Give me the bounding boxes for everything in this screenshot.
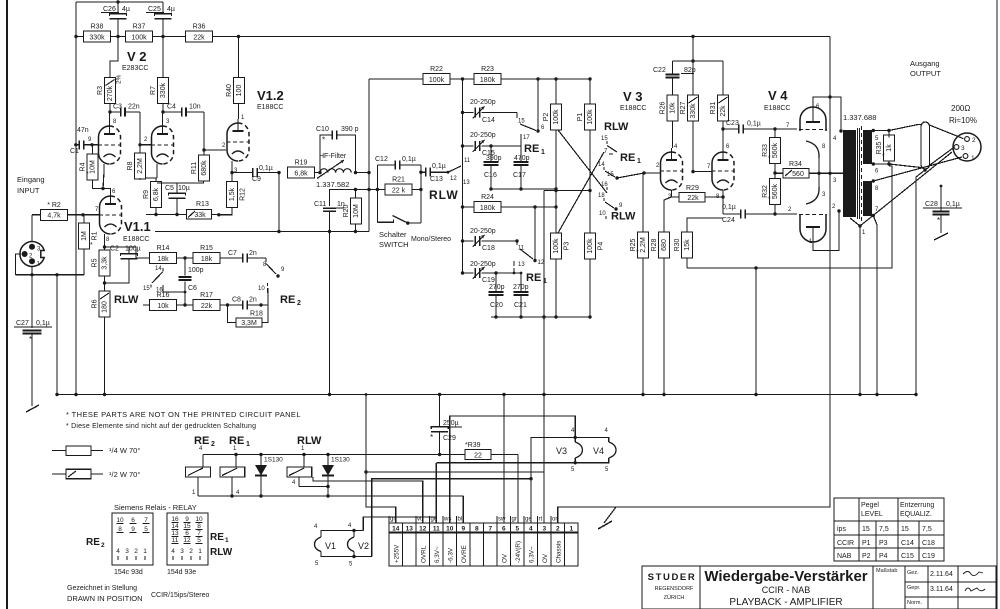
svg-text:13: 13 [518,262,525,268]
wire R7 top [162,37,164,78]
wire R3 to anode node [109,104,111,113]
resistor R2 [32,202,83,221]
switch contact 11-12-13 [446,158,471,186]
title block dates [907,570,985,606]
resistor R27 [680,95,699,121]
wire R4 bottom to V1.1 anode [93,180,111,192]
svg-text:V1.2: V1.2 [257,88,284,103]
node switch module left [376,188,379,191]
svg-text:+255V: +255V [393,544,400,563]
node R5 bottom [103,281,106,284]
svg-text:1.337.688: 1.337.688 [843,113,876,122]
svg-text:V 3: V 3 [623,89,643,104]
wire V3b anode [722,121,724,148]
svg-text:1S130: 1S130 [331,457,350,464]
wire cell9 relay [462,496,464,523]
node row317 C20 [494,315,497,318]
svg-text:0,1µ: 0,1µ [402,156,416,163]
tube V2b [151,119,174,164]
svg-text:C21: C21 [514,302,527,309]
node bus x756 [754,393,757,396]
resistor R24 [463,194,557,213]
resistor R23 [474,66,556,85]
capacitor C27 [14,320,52,406]
svg-text:R40: R40 [226,84,233,97]
svg-text:V2: V2 [358,541,369,551]
svg-text:11: 11 [433,526,440,533]
node R39 left [438,453,441,456]
node C23 tap [721,127,724,130]
svg-text:-6,3V: -6,3V [447,547,454,563]
svg-text:gn: gn [390,517,397,523]
text RE1 table [210,532,229,544]
text Siemens Relais [114,503,197,512]
wire V2b cathode to R9 row [156,164,158,178]
resistor R32 [762,173,781,214]
svg-text:14: 14 [155,266,162,272]
wire R30 feedback [687,166,892,268]
svg-text:1S130: 1S130 [264,457,283,464]
node tr terminal 6 [872,162,879,174]
tube V2a [98,119,121,164]
wire tr8 to pin1 [873,157,962,181]
svg-text:16: 16 [171,516,179,523]
wire R9 C5 row [146,214,172,216]
diode D2 1S130 [322,455,350,497]
svg-text:Entzerrung: Entzerrung [900,502,934,509]
wire feedback vertical [75,2,77,394]
svg-text:15: 15 [607,172,614,178]
node row215 C5 [175,213,178,216]
svg-text:4: 4 [116,548,120,555]
node R33 bottom [773,171,776,174]
svg-text:10: 10 [195,516,203,523]
text note german [66,423,256,430]
wire EQ ground row [491,316,590,318]
svg-text:Ausgang: Ausgang [910,59,940,68]
svg-text:-24V(R): -24V(R) [515,541,522,563]
svg-text:20-250p: 20-250p [470,99,496,106]
text RLW relay [297,435,322,447]
svg-text:18k: 18k [157,256,169,263]
svg-text:10M: 10M [90,160,97,174]
svg-text:100p: 100p [188,267,204,274]
resistor R3 [97,74,123,103]
capacitor C16 [484,146,502,189]
svg-text:C24: C24 [722,217,735,224]
svg-text:330k: 330k [89,34,105,41]
resistor R1 [79,215,99,249]
svg-text:*: * [768,196,771,203]
node row215 R9 [154,213,157,216]
resistor R18 [228,305,269,327]
inductor HF-Filter [317,153,351,179]
svg-text:12: 12 [538,260,545,266]
svg-text:4: 4 [171,548,175,555]
svg-text:12: 12 [183,537,191,544]
svg-text:250µ: 250µ [443,420,459,427]
svg-text:RLW: RLW [114,294,139,306]
node relay D2 [326,494,329,497]
text Massstab [876,568,897,574]
svg-text:Norm.: Norm. [907,600,922,606]
relay pin table 154c [112,513,153,576]
svg-text:R21: R21 [392,177,405,184]
svg-text:R26: R26 [660,101,667,114]
node R22-R23 [450,77,474,80]
svg-text:13: 13 [406,526,414,533]
node tr terminal 3 [830,173,843,184]
wire x544 to bus [543,191,545,524]
svg-text:82p: 82p [684,67,696,74]
svg-text:2n: 2n [249,250,257,257]
node cathode C2 tap [103,245,106,248]
svg-text:2%: 2% [116,74,123,84]
resistor R17 [177,292,221,311]
svg-text:18k: 18k [201,256,213,263]
svg-text:2: 2 [556,526,560,533]
node bus x877 [875,393,878,396]
svg-text:3,3M: 3,3M [241,320,257,327]
svg-text:PLAYBACK - AMPLIFIER: PLAYBACK - AMPLIFIER [729,597,842,608]
svg-text:10: 10 [446,526,454,533]
wire V2 heater link [363,517,436,531]
svg-text:2.11.64: 2.11.64 [930,571,953,578]
svg-text:1k: 1k [886,144,893,152]
svg-text:R7: R7 [150,86,157,95]
capacitor C1 [70,127,92,155]
node C24 R32 [773,207,797,216]
tube V3 label [620,89,646,112]
svg-text:C1: C1 [70,148,79,155]
wire XLR pin1 down [31,266,33,275]
svg-text:P3: P3 [564,242,571,251]
svg-text:E188CC: E188CC [257,104,283,111]
svg-text:vt: vt [417,517,422,523]
wire R29 cathode row [671,190,673,197]
svg-text:10k: 10k [157,303,169,310]
svg-text:RLW: RLW [210,547,233,558]
svg-text:RE: RE [210,532,224,543]
text RE1 lower [526,272,547,285]
svg-text:C26: C26 [103,6,116,13]
svg-text:11: 11 [464,158,471,164]
node bus x57 [55,393,58,396]
svg-text:22 k: 22 k [392,187,406,194]
svg-text:V1.1: V1.1 [124,219,151,234]
svg-text:REGENSDORF: REGENSDORF [655,586,694,592]
tube V1.2 label [257,88,284,111]
switch RLW b [601,136,617,155]
svg-text:ZÜRICH: ZÜRICH [664,594,685,601]
node row231 R20 [354,230,357,233]
resistor R19 [288,160,321,179]
switch contact 14-15-16 [143,266,185,294]
svg-text:0,1µ: 0,1µ [36,320,50,327]
svg-text:1,5k: 1,5k [229,187,236,201]
svg-text:R36: R36 [193,24,206,31]
resistor R5 [92,250,111,276]
svg-text:C23: C23 [726,120,739,127]
node C22 top [691,59,694,62]
svg-text:V 4: V 4 [768,88,788,103]
svg-text:Ri≈10%: Ri≈10% [949,116,977,125]
svg-text:20-250p: 20-250p [470,132,496,139]
svg-text:180: 180 [102,301,109,313]
node V1.2 cathode [230,171,233,174]
svg-text:P2: P2 [543,113,550,122]
capacitor C23 [723,120,775,134]
svg-text:E188CC: E188CC [123,236,149,243]
text RE2 relay [194,435,215,448]
svg-text:R22: R22 [430,66,443,73]
svg-text:7: 7 [144,517,148,524]
svg-text:1: 1 [246,441,250,448]
svg-text:20-250p: 20-250p [470,228,496,235]
svg-text:P4: P4 [879,553,888,560]
svg-text:R27: R27 [680,101,687,114]
ground input [26,405,39,412]
svg-text:LEVEL: LEVEL [861,511,883,518]
svg-text:14: 14 [171,523,179,530]
svg-text:R16: R16 [157,292,170,299]
capacitor C25 [146,2,175,37]
svg-text:*: * [937,216,940,225]
node tr terminal 4 [833,129,843,142]
wire V4 pin6 to tr4 [813,97,841,130]
tube V2 label [122,49,148,72]
node R17 right [220,303,232,306]
switch RE1 c [514,205,545,273]
svg-text:* THESE PARTS ARE NOT ON: * THESE PARTS ARE NOT ON THE PRINTED CIR… [66,410,301,419]
svg-text:R3: R3 [97,86,104,95]
svg-text:RLW: RLW [429,188,459,202]
svg-text:sw: sw [498,517,506,523]
svg-text:13: 13 [171,530,179,537]
svg-text:Schalter: Schalter [379,230,407,239]
svg-text:C11: C11 [314,201,326,208]
svg-text:Mono/Stereo: Mono/Stereo [411,236,451,243]
svg-text:7: 7 [488,526,492,533]
svg-text:R28: R28 [651,238,658,251]
trimmer C14 [461,99,517,124]
svg-text:100k: 100k [553,109,560,125]
svg-text:HF-Filter: HF-Filter [319,153,347,160]
svg-text:or: or [552,517,557,523]
svg-text:13: 13 [463,180,470,186]
svg-text:330k: 330k [160,82,167,98]
svg-text:R20: R20 [343,204,350,217]
node bus x76 [74,393,77,396]
svg-text:5: 5 [144,526,148,533]
heater V4 [593,428,616,473]
svg-text:9: 9 [461,526,465,533]
svg-text:ips: ips [837,526,846,533]
resistor R33 [762,129,781,164]
node R11 top [202,148,205,151]
text Eingang INPUT [17,175,45,195]
svg-text:C28: C28 [925,201,938,208]
svg-text:390p: 390p [486,155,502,162]
svg-text:¹/4 W 70°: ¹/4 W 70° [109,446,140,455]
wire R22 drop [368,79,370,173]
svg-text:0,1µ: 0,1µ [946,201,960,208]
svg-text:15: 15 [901,526,909,533]
svg-text:47n: 47n [77,127,89,134]
transformer secondary upper [863,130,872,164]
svg-text:ge: ge [431,517,438,523]
wire cell3 drop [542,393,545,396]
node bus x104 [103,393,106,396]
svg-text:0,1µ: 0,1µ [747,121,761,128]
node V3 grid in [642,171,645,174]
node bus x860 [858,393,861,396]
text 1.337.582 [316,180,349,189]
wire cell11 heater [435,463,437,523]
node rail x693 [691,35,694,38]
svg-text:E283CC: E283CC [122,65,148,72]
text 200 ohm [949,104,977,125]
svg-text:12: 12 [450,176,457,182]
legend half watt [52,469,140,479]
text title [704,568,867,608]
node R20 top [354,188,357,191]
diode D1 1S130 [255,455,283,497]
node rail x76 [74,35,77,38]
capacitor C21 [513,272,529,317]
wire relay supply rail [203,453,330,456]
node R24 left [461,205,464,208]
node C8 right [259,303,262,306]
wire C7 to switch [265,257,267,259]
capacitor C8 [232,297,261,310]
svg-text:RE: RE [524,143,539,155]
node R14-R15 [177,256,194,259]
tube V4 cathode 8 [806,141,826,173]
resistor R12 [227,161,247,208]
wire R27 to V3b grid [693,121,712,172]
svg-text:*: * [322,136,325,145]
svg-text:22k: 22k [720,105,727,117]
text note english [66,410,301,419]
capacitor C11 [314,201,345,232]
wire V2b anode [162,112,164,122]
svg-text:1.337.582: 1.337.582 [316,180,349,189]
text RLW table [210,547,233,558]
resistor R34 [775,161,830,178]
tube V1.2 [222,115,250,174]
wire output gnd diag [850,152,952,394]
svg-text:C14: C14 [901,540,914,547]
svg-text:R34: R34 [789,161,802,168]
node R24 right [554,189,557,233]
svg-text:6,8k: 6,8k [153,187,160,201]
wire V2a cathode [103,164,104,189]
wire V1.1 cathode [104,234,106,250]
resistor R8 [127,145,146,179]
potentiometer P2 [543,104,562,189]
svg-text:R29: R29 [686,185,699,192]
svg-text:1: 1 [198,548,202,555]
svg-text:*: * [430,433,433,442]
svg-text:470p: 470p [514,155,530,162]
wire V1.2 grid [204,112,226,150]
svg-text:8: 8 [118,526,122,533]
svg-text:1: 1 [143,548,147,555]
svg-text:*: * [86,171,89,178]
node row189 C17 [519,187,522,190]
node C23 R33 [773,123,797,131]
svg-text:C18: C18 [482,245,495,252]
svg-text:100k: 100k [587,238,594,254]
node row317 P4 [588,315,591,318]
heater V1 [314,524,336,567]
capacitor C7 [220,250,266,263]
resistor R40 [226,78,245,104]
resistor R29 [672,185,724,202]
svg-text:15k: 15k [684,239,691,251]
wire x756 down [755,268,757,394]
svg-text:RE: RE [526,272,541,284]
svg-text:ge: ge [525,517,532,523]
svg-text:Siemens Relais - RELAY: Siemens Relais - RELAY [114,503,197,512]
capacitor C13 [421,163,446,183]
tube V3b [707,144,735,200]
resistor R20 [343,190,362,232]
svg-text:E188CC: E188CC [620,105,646,112]
svg-text:1: 1 [569,526,573,533]
capacitor C12 [375,156,421,190]
svg-text:1: 1 [637,158,641,165]
node rail x238 [237,35,240,38]
node C1 left [74,143,77,146]
svg-text:R37: R37 [133,24,146,31]
heater V3 [556,428,582,473]
svg-text:2n: 2n [249,297,257,304]
capacitor C22 [653,61,696,95]
svg-text:100k: 100k [587,109,594,125]
text RE1 center [620,152,641,165]
resistor R37 [126,24,153,43]
tube V4 lower half [799,214,827,245]
wire tr5 to pin2 [889,125,964,139]
svg-text:6,3V~: 6,3V~ [434,546,441,563]
wire cathode to R14 [105,247,137,258]
svg-text:154c 93d: 154c 93d [114,569,143,576]
svg-text:R38: R38 [91,24,104,31]
text Ausgang OUTPUT [910,59,941,78]
text RLW cathode switch [114,294,139,306]
svg-text:OVRL: OVRL [420,545,427,563]
text RE1 relay [229,435,250,448]
svg-text:RLW: RLW [611,211,636,223]
svg-text:INPUT: INPUT [17,186,40,195]
capacitor C28 [923,186,962,233]
svg-text:5: 5 [515,526,519,533]
node bus x916 [914,393,917,396]
resistor R15 [193,245,220,264]
svg-text:R18: R18 [250,311,263,318]
svg-text:2,2M: 2,2M [137,158,144,174]
svg-text:20-250p: 20-250p [470,261,496,268]
switch RE1 a [517,77,545,146]
svg-text:180k: 180k [480,205,496,212]
node rail x118 [116,35,119,38]
potentiometer P3 [551,233,571,317]
svg-text:CCIR - NAB: CCIR - NAB [762,585,811,595]
wire V1.2 cathode row [232,172,250,174]
node R8 bottom row [138,176,141,179]
